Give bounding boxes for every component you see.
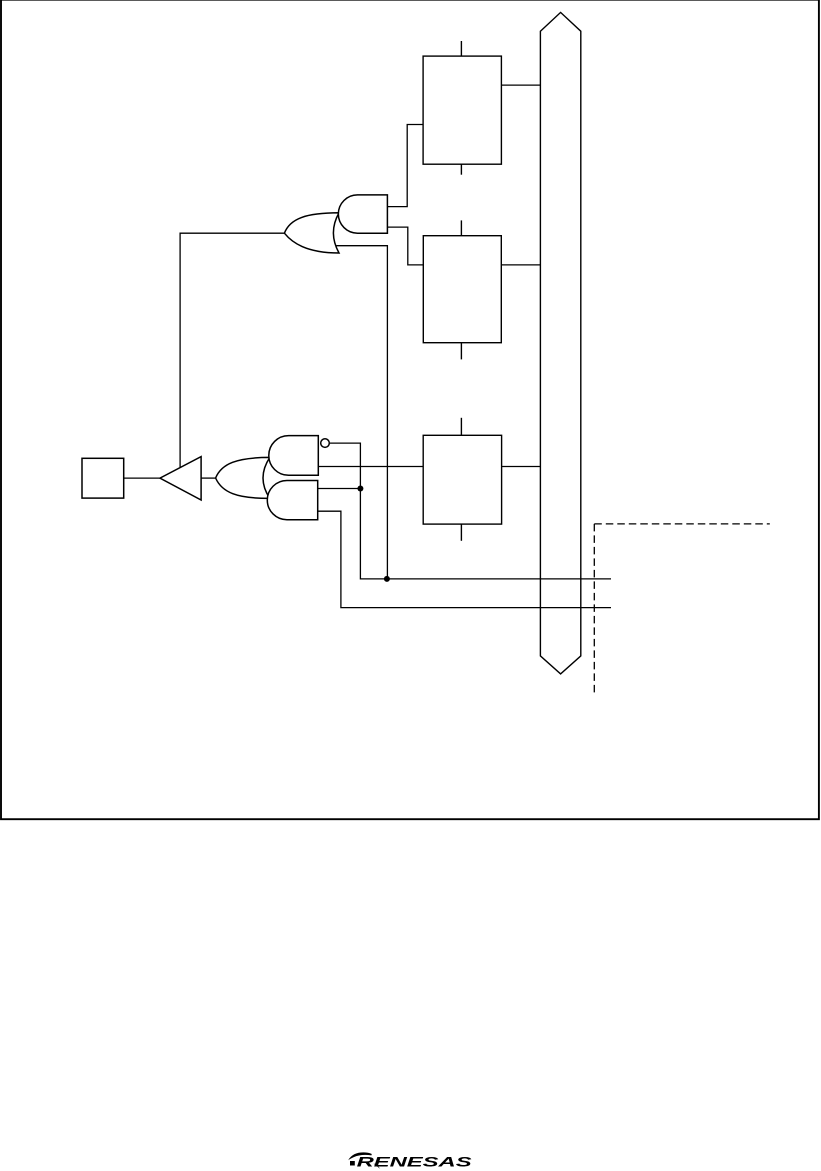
- svg-text:RENESAS: RENESAS: [357, 1154, 472, 1169]
